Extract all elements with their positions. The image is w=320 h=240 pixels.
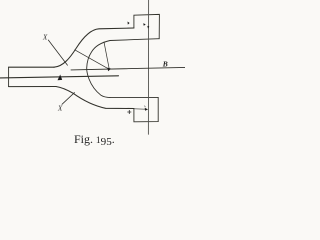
svg-text:Fig. 195.: Fig. 195. bbox=[74, 133, 115, 148]
svg-text:B: B bbox=[162, 59, 168, 68]
svg-text:X: X bbox=[42, 33, 48, 41]
svg-text:X: X bbox=[57, 105, 63, 113]
